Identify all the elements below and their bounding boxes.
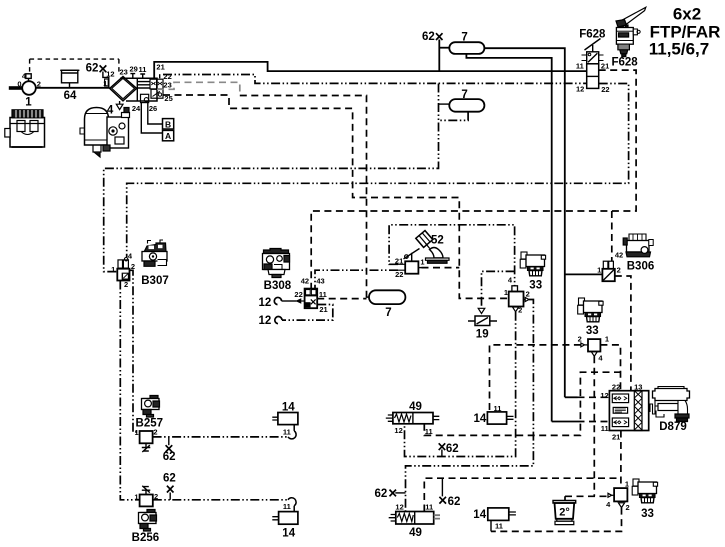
svg-text:62: 62 — [375, 488, 388, 500]
wire: supply line A into D879 port 11 — [552, 421, 578, 423]
svg-text:A: A — [165, 131, 171, 141]
svg-text:13: 13 — [634, 383, 642, 392]
svg-text:11,5/6,7: 11,5/6,7 — [649, 40, 710, 59]
air dryer 4 schematic filter — [105, 74, 163, 110]
svg-text:12: 12 — [106, 69, 114, 78]
svg-text:1: 1 — [135, 428, 139, 437]
wire: 33#3 port 2 long dash to chamber 14#4 — [491, 508, 622, 532]
svg-text:49: 49 — [409, 401, 422, 413]
valve B306 pictorial — [623, 234, 653, 257]
reservoir 7a — [449, 42, 484, 54]
svg-text:62: 62 — [448, 496, 461, 508]
trailer control valve B308 symbol — [305, 289, 318, 309]
reservoir 7c — [369, 290, 405, 304]
wire: B306 port1 from supply line B — [565, 273, 603, 275]
svg-text:24: 24 — [132, 104, 141, 113]
air dryer 4 pictorial — [80, 108, 130, 158]
ECU modulator D879 — [609, 391, 648, 431]
svg-text:1: 1 — [597, 266, 601, 275]
svg-text:22: 22 — [294, 290, 302, 299]
wire: B256 out dash-dot-dot to chamber 14#2 — [153, 499, 288, 501]
brake chamber 14#2 — [272, 498, 298, 524]
svg-text:12: 12 — [394, 426, 402, 435]
svg-text:2: 2 — [626, 503, 630, 512]
svg-text:21: 21 — [156, 63, 164, 72]
coupling head 12 (control) — [275, 305, 333, 324]
wire: B307 port2 right dash-dot-dot down to B257 port 1 — [130, 270, 140, 432]
spring brake cylinder 49#1 — [386, 413, 440, 424]
valve B308 pictorial — [263, 249, 290, 278]
wire: 33#2 port 1 long dash to D879-22 — [600, 345, 620, 391]
svg-text:22: 22 — [601, 85, 609, 94]
svg-text:1: 1 — [625, 480, 629, 489]
svg-text:43: 43 — [316, 277, 324, 286]
svg-text:11: 11 — [319, 290, 327, 299]
svg-text:12: 12 — [259, 315, 272, 327]
svg-text:11: 11 — [576, 62, 584, 71]
valve 33 pictorial (lower right) — [632, 479, 657, 503]
wire: 52 port 21 pilot dash-dot-dot to 33#1 port 4 and 19 — [389, 225, 514, 286]
svg-text:11: 11 — [494, 404, 502, 413]
valve B256 pictorial — [139, 510, 157, 532]
svg-text:2°: 2° — [559, 507, 570, 519]
svg-text:12: 12 — [576, 85, 584, 94]
wire: B306 port2 long dash down to D879-13 — [615, 276, 631, 391]
svg-text:2: 2 — [153, 428, 157, 437]
test point 62 (dryer inlet) — [100, 65, 109, 87]
svg-text:19: 19 — [476, 328, 489, 340]
svg-text:0: 0 — [17, 80, 21, 89]
svg-text:B: B — [165, 119, 171, 129]
svg-text:23: 23 — [120, 68, 128, 77]
svg-text:26: 26 — [149, 104, 157, 113]
svg-text:23: 23 — [163, 81, 171, 90]
svg-text:42: 42 — [615, 250, 623, 259]
wire: tank 7a right to vertical line B — [484, 48, 564, 397]
wire: line 23 long dash to tank 7c junction — [157, 82, 240, 95]
svg-text:22: 22 — [612, 383, 620, 392]
svg-text:B306: B306 — [627, 261, 655, 273]
svg-text:7: 7 — [461, 31, 467, 43]
wire compressor to dryer — [36, 87, 110, 89]
wire: line 22 dash-dot-dot to F628 port 12 — [163, 75, 587, 84]
hand brake valve F628 symbol — [582, 39, 604, 89]
svg-text:11: 11 — [495, 521, 503, 530]
wire: 33#2 port 2 long dash to chamber 14#3 — [490, 345, 581, 412]
wire: F628 port 21 long dash to B308-42 and B306-42 — [311, 70, 636, 289]
svg-text:52: 52 — [431, 235, 444, 247]
svg-text:12: 12 — [259, 297, 272, 309]
svg-text:49: 49 — [409, 527, 422, 539]
test point 62 (top, tank 7a) — [436, 33, 449, 71]
svg-text:1: 1 — [134, 493, 138, 502]
svg-text:14: 14 — [473, 509, 486, 521]
valve B307 pictorial — [142, 240, 167, 266]
svg-text:2: 2 — [617, 266, 621, 275]
svg-text:11: 11 — [425, 503, 433, 512]
svg-text:62: 62 — [446, 443, 459, 455]
compressor 1 pictorial — [5, 110, 45, 147]
svg-text:11: 11 — [425, 427, 433, 436]
test point 62 (parking line) — [439, 478, 446, 503]
wire: 52 port 1 long dash from supply — [418, 267, 421, 269]
svg-text:F628: F628 — [579, 29, 606, 41]
dryer unload ports to A/B — [141, 103, 173, 141]
svg-text:21: 21 — [612, 433, 620, 442]
valve B257 pictorial — [142, 396, 160, 418]
svg-text:42: 42 — [301, 277, 309, 286]
svg-text:11: 11 — [601, 424, 609, 433]
brake chamber 14#3 — [487, 412, 513, 424]
svg-text:B256: B256 — [132, 532, 160, 544]
svg-text:1: 1 — [504, 288, 508, 297]
throttle valve 19 — [468, 308, 497, 325]
capacitor/reservoir 64 — [60, 70, 79, 88]
svg-text:7: 7 — [461, 89, 467, 101]
test point 62 (B257 line) — [166, 437, 173, 452]
svg-text:22: 22 — [163, 72, 171, 81]
wire: B307 port2 bottom dash-dot-dot down to B256 port 1 — [120, 281, 139, 500]
wire: 49#2 port 11 long dash to D879-21 node — [424, 478, 621, 511]
svg-text:14: 14 — [282, 402, 295, 414]
test point 62 (49#2 pilot) — [390, 490, 406, 497]
compressor 1 — [9, 74, 36, 95]
levelling valve B256 symbol — [140, 486, 153, 507]
svg-text:33: 33 — [586, 325, 599, 337]
svg-text:1: 1 — [103, 79, 107, 88]
svg-text:1: 1 — [605, 335, 609, 344]
test point 62 (49#1 line) — [439, 443, 446, 456]
svg-text:1: 1 — [111, 265, 115, 274]
svg-text:21: 21 — [601, 62, 609, 71]
wire: 33#1 port2 bottom dash-dot-dot down to 49#1-12 — [405, 312, 516, 457]
svg-text:25: 25 — [164, 94, 172, 103]
valve 33 pictorial (upper) — [520, 252, 545, 276]
svg-text:2: 2 — [578, 335, 582, 344]
hand control 52 pictorial — [416, 231, 449, 264]
wire: 49#1 port 11 long dash to supply node — [424, 372, 620, 435]
solenoid valve 33#2 symbol — [581, 339, 601, 356]
svg-text:33: 33 — [641, 508, 654, 520]
svg-text:64: 64 — [64, 90, 77, 102]
wire: D879 port 21 long dash down to 33#3 — [620, 431, 622, 489]
svg-text:B307: B307 — [141, 275, 169, 287]
svg-text:21: 21 — [319, 305, 327, 314]
brake chamber 14#1 — [272, 413, 298, 439]
svg-text:1: 1 — [420, 258, 424, 267]
svg-text:2: 2 — [154, 492, 158, 501]
svg-text:14: 14 — [474, 413, 487, 425]
pressure limiter valve 33#1 — [509, 286, 529, 312]
valve 33 pictorial (middle) — [578, 298, 603, 322]
wire: governor pilot dashed line — [30, 59, 119, 74]
svg-text:2: 2 — [131, 262, 135, 271]
svg-text:4: 4 — [107, 104, 114, 116]
svg-text:62: 62 — [422, 31, 435, 43]
svg-text:12: 12 — [395, 503, 403, 512]
lift axle valve B307 symbol — [117, 258, 129, 281]
svg-text:2: 2 — [37, 80, 41, 89]
svg-text:6x2: 6x2 — [673, 5, 701, 24]
svg-text:29: 29 — [130, 64, 138, 73]
svg-text:1: 1 — [25, 97, 32, 109]
svg-text:2: 2 — [518, 305, 522, 314]
wire: 52 port 22 dash-dot-dot to B308 port 43 — [315, 270, 398, 288]
spring brake cylinder 49#2 — [389, 512, 440, 525]
F628 hand brake lever pictorial — [616, 7, 646, 56]
wire: tank 7b circuit dash-dot-dot — [104, 84, 439, 272]
svg-text:B257: B257 — [136, 417, 164, 429]
brake chamber 14#4 — [488, 508, 516, 532]
wire: line 21 solid main — [154, 62, 587, 78]
air bellows 2nd axle — [553, 501, 576, 525]
svg-text:11: 11 — [139, 65, 147, 74]
levelling valve B257 symbol — [140, 431, 153, 452]
wire: bellows pilot line to 33#3 port 4 — [565, 496, 608, 500]
svg-text:21: 21 — [395, 256, 403, 265]
svg-text:33: 33 — [529, 279, 542, 291]
svg-text:F628: F628 — [611, 57, 638, 69]
svg-text:7: 7 — [385, 307, 391, 319]
wire: B257 out dash-dot-dot to chamber 14#1 — [153, 436, 288, 438]
wire: 33#2 port 4 pilot dash-dot down — [593, 356, 595, 496]
wire: supply line B into D879 port 12 — [565, 396, 578, 398]
wire: 33#1 port2 right dash-dot-dot down to 49#2-12 — [406, 300, 534, 512]
svg-text:11: 11 — [283, 428, 291, 437]
svg-text:12: 12 — [600, 391, 608, 400]
svg-text:62: 62 — [163, 451, 176, 463]
levelling sensor valve 33#3 symbol — [608, 488, 627, 508]
hand control valve 52 symbol — [398, 249, 420, 274]
coupling head 12 (supply) — [274, 297, 304, 304]
modulator D879 pictorial — [650, 387, 690, 422]
test point 62 (B256 line) — [167, 486, 174, 500]
reservoir 7b — [449, 99, 484, 112]
solenoid valve B306 symbol — [602, 261, 614, 281]
wire: tank 7a bottom to vertical line A — [466, 54, 551, 422]
svg-text:2: 2 — [124, 280, 128, 289]
svg-text:B308: B308 — [264, 280, 292, 292]
wire: F628 port 22 dash-dot-dot down/left to B307-4 — [127, 84, 629, 258]
svg-text:62: 62 — [86, 63, 99, 75]
wire: B308 port 11 long dash to tank junction — [317, 298, 366, 300]
svg-text:62: 62 — [163, 473, 176, 485]
svg-text:D879: D879 — [659, 421, 687, 433]
wire: line 25 long dash supply to valve 33#1 — [163, 95, 509, 298]
svg-text:14: 14 — [282, 528, 295, 540]
svg-text:22: 22 — [395, 270, 403, 279]
svg-text:11: 11 — [283, 502, 291, 511]
